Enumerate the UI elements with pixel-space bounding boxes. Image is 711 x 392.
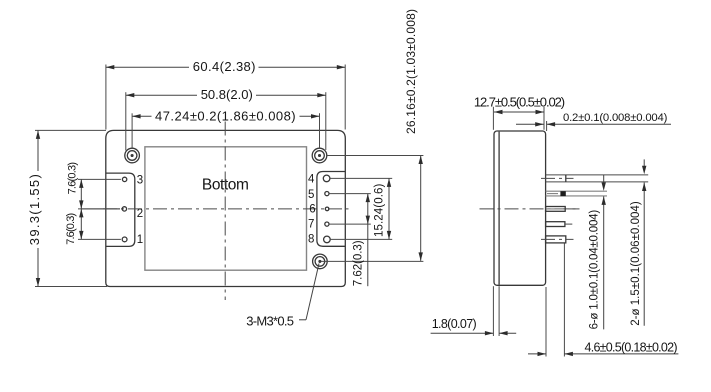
extension line pin4 right	[330, 177, 392, 179]
vertical centerline	[224, 122, 226, 301]
svg-text:7.62(0.3): 7.62(0.3)	[353, 240, 365, 286]
side pin 4	[541, 175, 648, 182]
svg-text:26.16±0.2(1.03±0.008): 26.16±0.2(1.03±0.008)	[404, 9, 418, 134]
pin 1	[122, 237, 127, 242]
svg-text:3: 3	[137, 175, 143, 187]
side pin 8	[541, 236, 574, 243]
inner rectangle (pcb area)	[145, 147, 307, 270]
dimension 50.8(2.0)	[126, 87, 326, 151]
svg-text:12.7±0.5(0.5±0.02): 12.7±0.5(0.5±0.02)	[474, 95, 565, 110]
svg-text:4: 4	[308, 174, 315, 186]
pin 3	[122, 177, 126, 181]
dimension 7.62(0.3)	[353, 194, 371, 287]
svg-text:8: 8	[308, 234, 314, 246]
side horizontal centerline	[480, 208, 580, 210]
svg-text:7.6(0.3): 7.6(0.3)	[66, 162, 78, 194]
svg-text:6-ø 1.0±0.1(0.04±0.004): 6-ø 1.0±0.1(0.04±0.004)	[589, 210, 601, 330]
extension line pin7 right	[329, 223, 371, 225]
dimension 1.8(0.07)	[431, 286, 517, 336]
left pin pocket	[106, 173, 135, 246]
svg-text:15.24(0.6): 15.24(0.6)	[373, 183, 385, 237]
dimension 2-ø1.5 pins	[630, 159, 647, 325]
horizontal centerline	[103, 208, 349, 210]
dimension 26.16±0.2(1.03±0.008)	[321, 9, 423, 261]
dimension 15.24(0.6)	[373, 178, 391, 239]
svg-text:5: 5	[308, 189, 314, 201]
svg-text:39.3(1.55): 39.3(1.55)	[27, 174, 42, 245]
pin 8	[324, 236, 331, 243]
pin 6	[325, 207, 329, 211]
right pin pocket	[317, 172, 345, 247]
svg-text:1: 1	[137, 234, 143, 246]
module body outline (bottom view)	[106, 130, 345, 286]
side body inner left line	[498, 132, 500, 285]
dimension 39.3(1.55)	[27, 130, 107, 286]
mounting hole top-left	[125, 148, 140, 163]
svg-text:6: 6	[309, 204, 315, 216]
extension line pin8 right	[330, 238, 392, 240]
pin 4	[323, 175, 330, 182]
svg-text:3-M3*0.5: 3-M3*0.5	[246, 313, 294, 328]
svg-text:0.2±0.1(0.008±0.004): 0.2±0.1(0.008±0.004)	[563, 112, 668, 124]
dimension 7.6(0.3) upper	[66, 162, 121, 239]
dimension 47.24±0.2(1.86±0.008)	[132, 108, 319, 148]
svg-text:50.8(2.0): 50.8(2.0)	[201, 87, 253, 102]
svg-text:4.6±0.5(0.18±0.02): 4.6±0.5(0.18±0.02)	[585, 341, 678, 355]
svg-text:7.6(0.3): 7.6(0.3)	[65, 213, 77, 245]
3-M3*0.5 thread note	[246, 264, 319, 329]
dimension 0.2±0.1(0.008±0.004)	[516, 112, 671, 131]
pin 5	[325, 192, 329, 196]
extension line pin5 right	[329, 193, 371, 195]
svg-text:47.24±0.2(1.86±0.008): 47.24±0.2(1.86±0.008)	[155, 108, 296, 123]
dimension 6-ø1.0 pins	[589, 175, 606, 330]
svg-text:1.8(0.07): 1.8(0.07)	[432, 317, 477, 331]
dimension 4.6±0.5(0.18±0.02)	[528, 244, 678, 357]
dimension 60.4(2.38)	[106, 59, 345, 130]
svg-text:7: 7	[308, 219, 314, 231]
side pin 5	[546, 191, 607, 196]
extension line pin2 left	[81, 208, 120, 210]
dimension 7.6(0.3) lower	[65, 209, 121, 245]
svg-text:60.4(2.38): 60.4(2.38)	[193, 59, 256, 74]
side body outline	[494, 131, 546, 285]
dimension 12.7±0.5(0.5±0.02)	[474, 95, 565, 130]
svg-text:2: 2	[137, 208, 143, 220]
side pin 7	[546, 222, 573, 227]
side pin 6	[546, 207, 580, 212]
svg-text:2-ø 1.5±0.1(0.06±0.004): 2-ø 1.5±0.1(0.06±0.004)	[630, 201, 642, 326]
pin 2	[122, 207, 126, 211]
mounting hole top-right	[312, 148, 327, 163]
mounting hole bottom	[313, 254, 328, 269]
pin 7	[325, 222, 329, 226]
